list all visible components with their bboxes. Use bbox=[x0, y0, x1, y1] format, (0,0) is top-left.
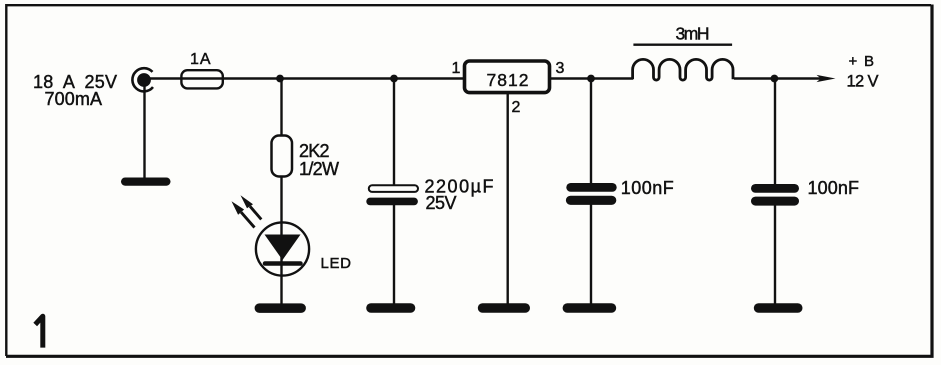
wire terminal down bbox=[143, 85, 145, 179]
capacitor C1 2200uF positive plate bbox=[369, 185, 418, 192]
fuse F1 bbox=[181, 70, 222, 88]
wire 7812 pin2 to ground bbox=[507, 93, 509, 305]
svg-text:100nF: 100nF bbox=[621, 178, 674, 198]
ground (C2) bbox=[563, 303, 617, 313]
node: resistor branch bbox=[276, 75, 284, 83]
output arrow bbox=[817, 75, 836, 82]
input terminal bbox=[132, 68, 153, 91]
LED D1 bbox=[232, 195, 310, 275]
IC U1 7812 bbox=[465, 61, 550, 93]
svg-text:3: 3 bbox=[556, 60, 565, 77]
svg-text:25V: 25V bbox=[426, 193, 457, 213]
svg-text:1/2W: 1/2W bbox=[299, 159, 339, 179]
inductor overline bbox=[633, 44, 732, 46]
resistor R1 2K2 bbox=[272, 136, 293, 177]
figure number 1 bbox=[35, 316, 43, 347]
wire C2 to ground bbox=[590, 204, 592, 304]
inductor L1 3mH bbox=[633, 59, 733, 80]
svg-text:100nF: 100nF bbox=[808, 178, 860, 198]
node: C1 branch bbox=[390, 75, 398, 83]
svg-text:2: 2 bbox=[512, 99, 521, 116]
svg-text:1A: 1A bbox=[190, 51, 211, 68]
svg-text:700mA: 700mA bbox=[45, 89, 103, 109]
svg-text:7812: 7812 bbox=[487, 70, 529, 90]
capacitor C1 negative plate bbox=[366, 198, 418, 206]
wire node to C3 bbox=[774, 79, 776, 186]
svg-text:3mH: 3mH bbox=[676, 24, 710, 44]
ground (7812) bbox=[478, 303, 530, 313]
wire resistor to LED and down to ground bbox=[280, 176, 282, 304]
svg-text:+ B: + B bbox=[849, 53, 875, 70]
ground (C1) bbox=[366, 303, 415, 313]
ground (C3) bbox=[754, 303, 803, 313]
wire main rail: terminal to 7812 pin1 bbox=[144, 77, 465, 79]
capacitor C3 100nF plates bbox=[751, 184, 799, 206]
ground (LED) bbox=[255, 303, 306, 313]
wire C3 to ground bbox=[774, 205, 776, 304]
svg-text:2K2: 2K2 bbox=[299, 141, 330, 161]
svg-text:1: 1 bbox=[452, 60, 461, 77]
svg-text:12 V: 12 V bbox=[847, 73, 879, 91]
node: C3 / output bbox=[771, 75, 779, 83]
wire node to resistor bbox=[280, 79, 282, 138]
wire: inductor to output arrow bbox=[734, 77, 822, 79]
wire C1 to ground bbox=[393, 205, 395, 304]
node: C2 branch bbox=[587, 75, 595, 83]
ground (input) bbox=[121, 178, 171, 186]
capacitor C2 100nF plates bbox=[566, 183, 617, 205]
svg-text:LED: LED bbox=[321, 255, 352, 272]
wire node to C1 bbox=[393, 79, 395, 187]
wire node to C2 bbox=[590, 79, 592, 185]
wire main rail: 7812 pin3 to inductor bbox=[550, 77, 634, 79]
